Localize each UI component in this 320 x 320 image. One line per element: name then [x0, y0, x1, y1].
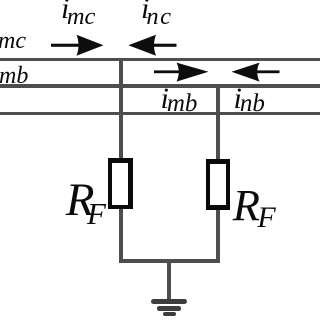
- label i_mc: [61, 0, 98, 24]
- label mc (clipped at left edge): [0, 29, 26, 53]
- label i_nb: [234, 84, 267, 114]
- bus line 2 (conductor b upper): [0, 84, 320, 88]
- wire: right vertical from bus line 2 down to bottom node: [216, 85, 220, 262]
- ground symbol: [0, 0, 1, 1]
- wire: ground stem: [167, 261, 171, 300]
- label RF right: [233, 183, 279, 228]
- bus line 1 (conductor c): [0, 58, 320, 62]
- label RF left: [66, 177, 114, 224]
- wire: bottom horizontal joining the two resistor branches: [119, 259, 220, 263]
- bus line 3 (conductor b lower): [0, 112, 320, 116]
- wire: left vertical from bus line 1 down to bottom node: [119, 59, 123, 263]
- label mb (clipped at left edge): [0, 64, 28, 88]
- resistor RF right (box): [206, 159, 231, 210]
- resistor RF left (box): [108, 158, 133, 209]
- label i_nc: [141, 0, 175, 24]
- label i_mb: [161, 84, 200, 114]
